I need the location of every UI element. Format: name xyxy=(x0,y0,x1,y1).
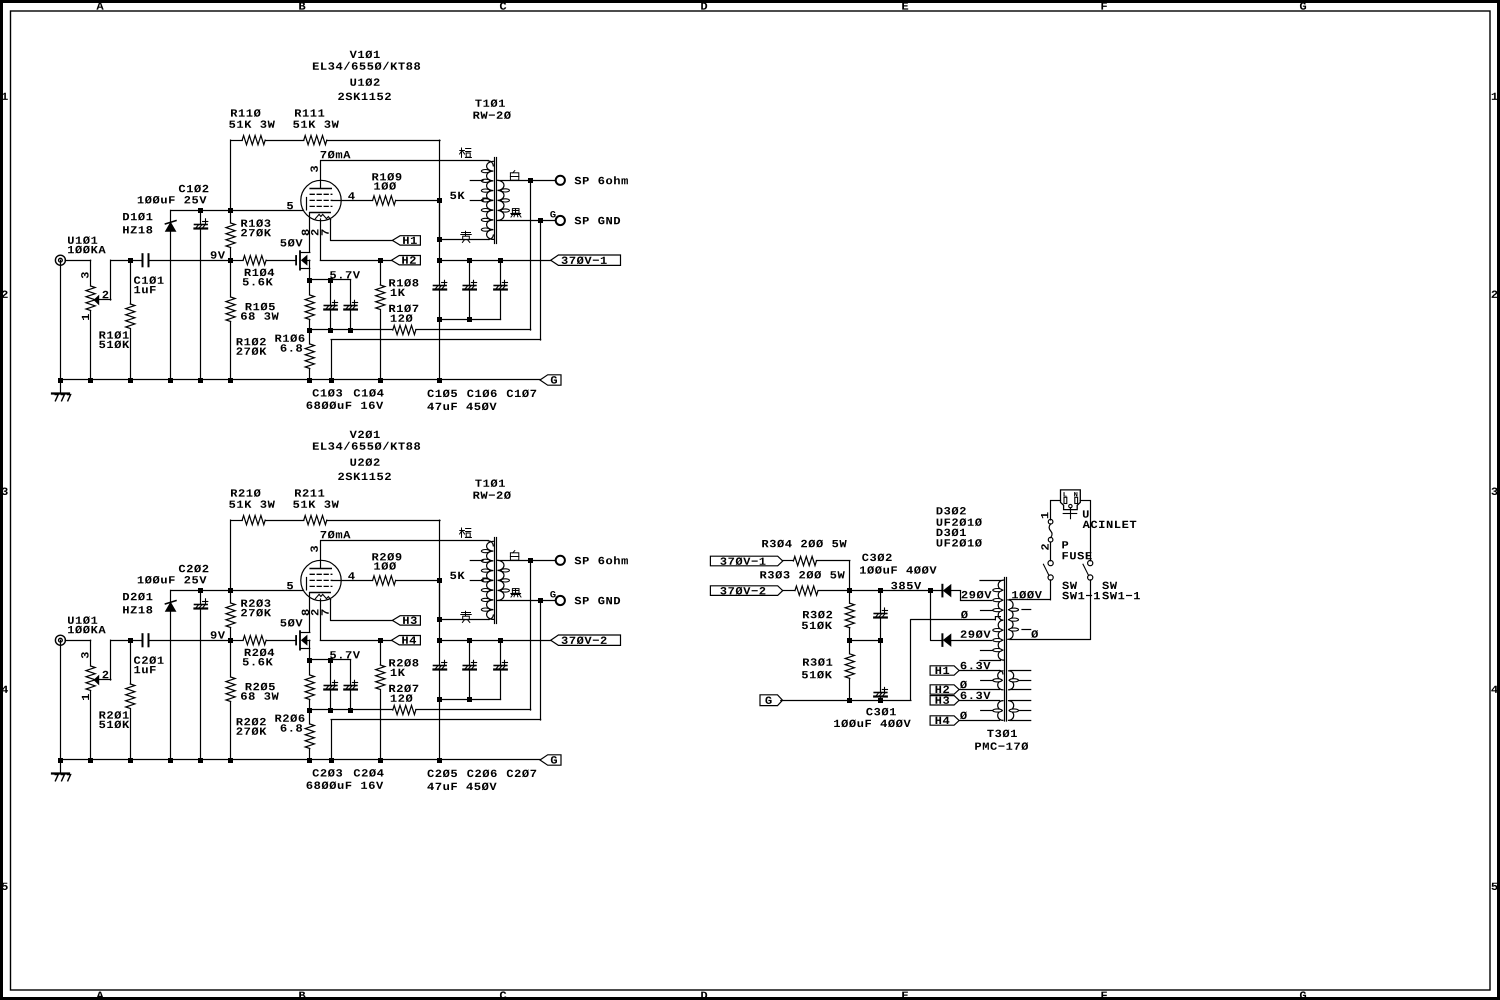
tube pin 5 grid wire label xyxy=(287,582,293,589)
switch SW1-1 pole 2 xyxy=(1083,561,1093,581)
label R108 1K xyxy=(389,279,418,296)
pot pin 1 label xyxy=(82,314,89,320)
wire R107 to speaker feedback xyxy=(416,560,531,710)
capacitor C105 47uF xyxy=(434,260,447,380)
label R211 51K 3W xyxy=(293,489,339,508)
capacitor C104 6800uF xyxy=(344,280,357,330)
AC inlet connector U xyxy=(1061,490,1081,519)
label C302 100uF 400V xyxy=(860,554,937,574)
tag H2 xyxy=(392,256,421,265)
label C101 1uF xyxy=(134,276,164,293)
resistor R211 51K 3W xyxy=(304,516,327,525)
label 6.3V upper xyxy=(961,662,991,670)
tube heater filament xyxy=(315,594,330,599)
fuse terminal 1 label xyxy=(1041,512,1048,518)
resistor R111 51K 3W xyxy=(304,136,327,145)
label U102 2SK1152 xyxy=(338,78,391,100)
label 5.7V xyxy=(330,651,360,658)
capacitor C106 47uF xyxy=(463,260,476,319)
pot pin 2 label xyxy=(103,291,109,298)
T101 primary tap stub upper xyxy=(470,180,483,182)
label 70mA xyxy=(321,151,351,159)
terminal SP 6ohm xyxy=(556,176,565,185)
tag 370V-1 supply xyxy=(710,556,782,566)
label SP 6ohm xyxy=(575,176,628,184)
pot pin 1 label xyxy=(82,694,89,700)
wire fuse to switch xyxy=(1050,542,1052,561)
label C201 1uF xyxy=(134,656,164,673)
label C102 100uF 25V xyxy=(138,185,209,204)
label 5.7V xyxy=(330,271,360,278)
chassis ground symbol xyxy=(52,760,71,781)
label R102 270K xyxy=(237,338,267,355)
output transformer T101 core xyxy=(495,538,497,624)
T101 secondary winding loops xyxy=(501,189,509,212)
T301 100V bottom lead xyxy=(1010,639,1091,641)
power transformer T301 core xyxy=(1005,578,1007,722)
wire AC inlet N to switch pole 2 xyxy=(1080,501,1090,561)
label white 白 xyxy=(510,171,518,181)
T101 primary winding xyxy=(487,541,494,619)
tube grid g1 dashed xyxy=(310,193,332,195)
resistor R301 510K xyxy=(845,640,854,700)
resistor R102 270K xyxy=(226,260,235,380)
label R110 51K 3W xyxy=(229,109,275,128)
label 5K xyxy=(450,572,464,579)
wire mosfet drain to cathode xyxy=(309,213,311,253)
resistor R202 270K xyxy=(226,640,235,760)
wire R109 to B+ rail xyxy=(396,198,442,203)
tag H4 xyxy=(392,636,421,645)
label 50V xyxy=(280,239,302,247)
label R104 5.6K xyxy=(243,269,274,286)
tube plate pin 3 label xyxy=(310,546,318,552)
mosfet U202 2SK1152 xyxy=(295,630,310,660)
tag H1 xyxy=(392,236,420,245)
tag G ground xyxy=(540,375,561,385)
node 9V label xyxy=(211,631,225,639)
wire speaker ground return xyxy=(331,221,540,381)
T301 heater winding A right leads xyxy=(1010,671,1031,690)
wire source node row xyxy=(307,278,351,283)
T101 secondary bottom lead 黒 xyxy=(499,598,556,603)
wire B+ rail vertical xyxy=(439,520,441,640)
label G terminal xyxy=(550,591,555,597)
wire between feedback resistors xyxy=(265,520,304,522)
T101 secondary top lead 白 xyxy=(498,558,556,563)
fuse P xyxy=(1048,519,1053,542)
label U101 100KA xyxy=(68,236,106,253)
wire heater pin 2 to H4 tag xyxy=(320,599,391,643)
label D101 HZ18 xyxy=(123,213,152,234)
wire wiper to coupling cap xyxy=(111,258,142,263)
label R106 6.8 xyxy=(275,334,304,351)
wire switch pole2 to primary 0 xyxy=(1090,580,1092,640)
tube cathode bar xyxy=(310,592,330,594)
resistor R101 510K xyxy=(126,260,135,380)
terminal SP GND xyxy=(556,216,565,225)
T301 HV winding xyxy=(998,580,1003,660)
tube grid g3 dashed xyxy=(310,205,332,207)
capacitor C107 47uF xyxy=(494,260,507,319)
diode D301 UF2010 xyxy=(931,591,992,646)
wire B+ rail vertical xyxy=(439,140,441,260)
label R205 68 3W xyxy=(241,683,279,700)
input jack J101 xyxy=(55,255,65,265)
resistor R110 51K 3W xyxy=(231,136,266,211)
wire H1 lead xyxy=(959,671,1003,674)
terminal SP 6ohm xyxy=(556,556,565,565)
wire coupling cap to 9V node xyxy=(149,638,233,643)
label 385V xyxy=(891,582,921,590)
ground bus wire xyxy=(58,640,540,763)
tag G supply ground xyxy=(760,695,783,706)
tube pin 8 label xyxy=(302,609,310,615)
tube pin 4 screen wire xyxy=(332,580,373,582)
tube plate xyxy=(310,161,331,189)
wire plate to output transformer 70mA xyxy=(321,541,494,546)
T301 HV top stub xyxy=(980,580,1000,582)
T301 heater winding A right xyxy=(1009,671,1014,690)
label 290V upper xyxy=(962,591,992,599)
wire filter cap bottom rail xyxy=(437,317,501,322)
tube pin 4 screen wire xyxy=(332,200,373,202)
wire mosfet drain to cathode xyxy=(309,593,311,633)
label 0 H2 xyxy=(960,681,967,689)
T101 primary winding loops xyxy=(481,550,489,612)
wire wiper to coupling cap xyxy=(111,638,142,643)
tube V101 envelope xyxy=(301,180,341,220)
capacitor C102 100uF 25V xyxy=(195,210,208,380)
label C105 C106 C107 47uF 450V xyxy=(427,390,536,411)
resistor R107 120 xyxy=(393,325,416,334)
T301 HV stub 610 xyxy=(981,610,993,612)
label orange 橙 xyxy=(460,148,472,158)
wire cathode bypass node row xyxy=(307,708,393,713)
resistor R207 120 xyxy=(393,705,416,714)
label C301 100uF 400V xyxy=(834,708,911,727)
fuse terminal 2 label xyxy=(1041,544,1048,550)
label C103 C104 6800uF 16V xyxy=(307,389,384,409)
label R105 68 3W xyxy=(241,303,279,320)
switch SW1-1 pole 1 xyxy=(1043,561,1053,581)
wire H3 lead xyxy=(959,700,999,702)
resistor R203 270K xyxy=(226,590,235,640)
tag H3 supply xyxy=(930,696,959,705)
wire filter cap bottom rail xyxy=(437,697,501,702)
capacitor C103 6800uF xyxy=(324,280,337,330)
T301 heater winding B right loop xyxy=(1009,709,1030,712)
capacitor C202 100uF 25V xyxy=(195,590,208,760)
capacitor C207 47uF xyxy=(494,640,507,699)
tube plate pin 3 label xyxy=(310,166,318,172)
label 0 center tap xyxy=(961,611,968,619)
potentiometer U101 100KA xyxy=(86,260,111,380)
T101 primary tap stub upper xyxy=(470,560,483,562)
T301 100V winding loops xyxy=(1009,608,1018,631)
capacitor C206 47uF xyxy=(463,640,476,699)
wire heater pin 7 to H3 tag xyxy=(331,600,393,621)
label R302 510K xyxy=(802,611,832,630)
tube grid g1 dashed xyxy=(310,573,332,575)
label R208 1K xyxy=(389,659,418,676)
tag G ground xyxy=(540,755,561,765)
tube grid g3 dashed xyxy=(310,585,332,587)
T301 100V top lead xyxy=(1010,599,1050,601)
resistor R206 6.8 xyxy=(305,710,314,760)
wire zener to grid node xyxy=(171,588,303,593)
wire H4 lead xyxy=(959,720,999,722)
resistor R103 270K xyxy=(226,210,235,260)
label R109 100 xyxy=(372,173,401,190)
tube pin 7 label xyxy=(321,230,328,236)
capacitor C203 6800uF xyxy=(324,660,337,710)
label SW SW1-1 pole 1 xyxy=(1062,582,1100,600)
label C202 100uF 25V xyxy=(138,565,209,584)
tag 370V-1 xyxy=(551,255,621,265)
tube pin 7 label xyxy=(321,610,328,616)
label T101 RW-20 xyxy=(473,479,510,499)
wire coupling cap to 9V node xyxy=(149,258,233,263)
resistor R109 100 xyxy=(373,196,396,205)
label black 黒 xyxy=(511,589,521,597)
tube pin 8 label xyxy=(302,229,310,235)
label yellow 黄 xyxy=(461,231,471,242)
wire input to volume pot xyxy=(65,260,91,262)
T101 primary bottom lead xyxy=(437,235,493,242)
wire B+ vertical to primary xyxy=(439,200,441,239)
label yellow 黄 xyxy=(461,611,471,622)
T101 primary winding xyxy=(487,161,494,239)
tube V201 envelope xyxy=(301,560,341,600)
tube grid lead stub xyxy=(306,198,308,210)
pot pin 3 label xyxy=(81,652,89,658)
tube grid g2 dashed xyxy=(310,199,332,201)
label R303 200 5W xyxy=(760,571,845,579)
tube heater filament xyxy=(315,214,330,219)
potentiometer U201 100KA xyxy=(86,640,111,760)
label R210 51K 3W xyxy=(229,489,275,508)
tube pin 4 label xyxy=(348,192,355,199)
wire speaker ground return xyxy=(331,601,540,761)
tube plate xyxy=(310,541,331,569)
label D201 HZ18 xyxy=(123,593,152,614)
label R202 270K xyxy=(237,718,267,735)
tag 370V-2 supply xyxy=(710,586,782,596)
capacitor C302 100uF 400V xyxy=(874,591,887,641)
T301 100V stubs xyxy=(1022,610,1031,630)
label SP 6ohm xyxy=(575,556,628,564)
mosfet U102 2SK1152 xyxy=(295,250,310,280)
label SP GND xyxy=(575,597,621,605)
label 5K xyxy=(450,192,464,199)
tube pin 2 label xyxy=(311,609,318,615)
ground bus wire xyxy=(58,260,540,383)
capacitor C101 1uF xyxy=(143,254,149,266)
label 0 primary xyxy=(1031,630,1038,638)
diode D302 UF2010 xyxy=(942,585,991,601)
wire R109 to B+ rail xyxy=(396,578,442,583)
tag 370V-2 xyxy=(551,635,621,645)
T101 secondary bottom lead 黒 xyxy=(499,218,556,223)
label 290V lower xyxy=(961,630,991,638)
wire 385V node xyxy=(818,588,942,593)
T301 heater winding B xyxy=(998,701,1003,721)
label 50V xyxy=(280,619,302,627)
wire B+ to tag 370V-2 xyxy=(437,638,551,643)
wire cathode bypass node row xyxy=(307,328,393,333)
resistor R204 5.6K xyxy=(231,636,296,645)
wire divider mid node xyxy=(847,638,883,643)
wire plate to output transformer 70mA xyxy=(321,161,494,166)
capacitor C204 6800uF xyxy=(344,660,357,710)
label R206 6.8 xyxy=(275,714,304,731)
tag H1 supply xyxy=(930,666,959,675)
resistor R106 6.8 xyxy=(305,330,314,380)
T101 primary winding loops xyxy=(481,170,489,232)
resistor R303 200 5W xyxy=(783,586,818,595)
label black 黒 xyxy=(511,209,521,217)
T101 primary bottom lead xyxy=(437,615,493,622)
pot pin 3 label xyxy=(81,272,89,278)
label R201 510K xyxy=(99,711,129,728)
T301 heater winding B right xyxy=(1009,701,1014,721)
T101 primary tap stub 5K xyxy=(470,578,487,580)
tube pin 4 label xyxy=(348,572,355,579)
label 6.3V lower xyxy=(961,692,991,700)
label V101 EL34/6550/KT88 xyxy=(313,51,420,70)
wire R107 to speaker feedback xyxy=(416,180,531,330)
label SP GND xyxy=(575,217,621,225)
pot pin 2 label xyxy=(103,671,109,678)
wire B+ vertical to primary xyxy=(439,580,441,619)
T301 HV bottom stub xyxy=(980,660,1000,662)
tube grid lead stub xyxy=(306,578,308,590)
tag H4 supply xyxy=(930,716,959,725)
label R101 510K xyxy=(99,331,129,348)
node 9V label xyxy=(211,251,225,259)
chassis ground symbol xyxy=(52,380,71,401)
resistor R108 1K xyxy=(376,260,385,380)
T301 heater winding A xyxy=(998,671,1003,690)
output transformer T101 core xyxy=(495,158,497,244)
label G terminal xyxy=(550,211,555,217)
wire switch pole1 to 100V xyxy=(1050,580,1052,600)
T301 HV winding loops xyxy=(993,589,1002,652)
T301 heater winding B right leads xyxy=(1010,701,1031,721)
T101 secondary winding xyxy=(498,560,504,600)
label R207 120 xyxy=(389,685,418,703)
tag H3 xyxy=(392,616,420,625)
label R107 120 xyxy=(389,305,418,323)
resistor R304 200 5W xyxy=(783,556,850,590)
label U201 100KA xyxy=(68,616,106,633)
T301 heater winding B loop xyxy=(981,709,1002,712)
wire input to volume pot xyxy=(65,640,91,642)
wire AC inlet L to fuse xyxy=(1051,501,1061,520)
label R304 200 5W xyxy=(762,540,847,548)
label V201 EL34/6550/KT88 xyxy=(313,431,420,450)
label R204 5.6K xyxy=(243,649,274,666)
T301 100V winding xyxy=(1008,600,1013,640)
capacitor C201 1uF xyxy=(143,634,149,646)
label T101 RW-20 xyxy=(473,99,510,119)
label D302 UF2010 D301 UF2010 xyxy=(937,507,982,547)
resistor R209 100 xyxy=(373,576,396,585)
label R203 270K xyxy=(241,599,271,616)
tube pin 5 grid wire label xyxy=(287,202,293,209)
wire source node row xyxy=(307,658,351,663)
label T301 PMC-170 xyxy=(975,730,1028,751)
wire H2 lead xyxy=(959,689,999,691)
wire feedback to B+ rail xyxy=(327,520,440,522)
label R209 100 xyxy=(372,553,401,570)
capacitor C205 47uF xyxy=(434,640,447,760)
label orange 橙 xyxy=(460,528,472,538)
label R111 51K 3W xyxy=(293,109,339,128)
resistor R104 5.6K xyxy=(231,256,296,265)
T301 heater winding A right loop xyxy=(1009,679,1030,682)
input jack J201 xyxy=(55,635,65,645)
wire heater pin 2 to H2 tag xyxy=(320,219,391,263)
tube grid g2 dashed xyxy=(310,579,332,581)
label R103 270K xyxy=(241,219,271,236)
T301 HV stub 650 xyxy=(981,650,993,652)
resistor R302 510K xyxy=(845,591,854,641)
wire between feedback resistors xyxy=(265,140,304,142)
T101 secondary top lead 白 xyxy=(498,178,556,183)
zener diode D101 HZ18 xyxy=(165,210,176,380)
resistor R208 1K xyxy=(376,640,385,760)
label 0 H4 xyxy=(960,712,967,720)
zener diode D201 HZ18 xyxy=(165,590,176,760)
wire zener to grid node xyxy=(171,208,303,213)
T101 secondary winding loops xyxy=(501,569,509,592)
label R301 510K xyxy=(802,658,832,678)
T101 secondary winding xyxy=(498,180,504,220)
T101 primary tap stub 5K xyxy=(470,198,487,200)
resistor R205 68 3W xyxy=(305,660,314,710)
label C203 C204 6800uF 16V xyxy=(307,769,384,789)
capacitor C301 100uF 400V xyxy=(874,640,887,700)
label C205 C206 C207 47uF 450V xyxy=(427,770,536,791)
label white 白 xyxy=(510,551,518,561)
terminal SP GND xyxy=(556,596,565,605)
tube pin 2 label xyxy=(311,229,318,235)
wire ground rail to center tap xyxy=(781,617,1001,703)
resistor R105 68 3W xyxy=(305,280,314,330)
label U202 2SK1152 xyxy=(338,458,391,480)
label 100V xyxy=(1012,591,1042,599)
tube cathode bar xyxy=(310,212,330,214)
label 70mA xyxy=(321,531,351,539)
wire heater pin 7 to H1 tag xyxy=(331,220,393,241)
resistor R201 510K xyxy=(126,640,135,760)
label P FUSE xyxy=(1062,541,1091,559)
tag H2 supply xyxy=(930,685,959,694)
wire feedback to B+ rail xyxy=(327,140,440,142)
label U ACINLET xyxy=(1083,510,1137,528)
wire B+ to tag 370V-1 xyxy=(437,258,551,263)
label SW SW1-1 pole 2 xyxy=(1102,582,1140,600)
T301 heater winding A loop xyxy=(981,679,1002,682)
resistor R210 51K 3W xyxy=(231,516,266,591)
